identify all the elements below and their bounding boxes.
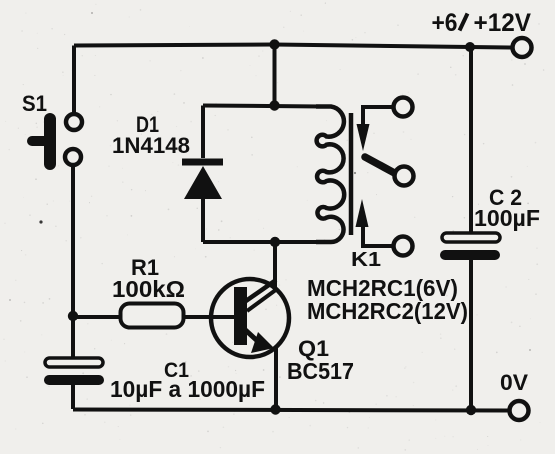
- node junction top-right: [465, 42, 475, 52]
- node junction emitter-rail: [270, 404, 280, 414]
- capacitor C2: [440, 47, 500, 410]
- node junction coil bottom: [270, 237, 280, 247]
- svg-text:BC517: BC517: [287, 358, 354, 384]
- relay K1 core: [349, 113, 354, 235]
- svg-text:1N4148: 1N4148: [112, 133, 190, 158]
- wire bottom rail: [73, 410, 510, 411]
- svg-text:0V: 0V: [500, 370, 528, 395]
- wire top rail: [74, 45, 512, 48]
- wire diode-coil top: [203, 106, 322, 107]
- svg-text:MCH2RC2(12V): MCH2RC2(12V): [307, 298, 468, 324]
- terminal 0V: [510, 401, 529, 420]
- node junction top-center: [269, 39, 279, 49]
- node junction coil top: [269, 100, 279, 110]
- terminal +6/+12V: [513, 38, 532, 57]
- svg-text:+6: +6: [432, 9, 458, 37]
- switch S1: [32, 114, 82, 165]
- svg-text:K1: K1: [351, 249, 381, 271]
- node junction C2-rail: [466, 405, 476, 415]
- diode D1: [182, 106, 223, 243]
- relay K1 coil: [316, 107, 344, 243]
- svg-text:+12V: +12V: [474, 9, 532, 37]
- wire left rail lower: [71, 165, 75, 358]
- wire collector link: [273, 242, 277, 291]
- wire node link top: [273, 45, 277, 106]
- svg-text:100µF: 100µF: [474, 205, 540, 231]
- wire diode-coil bottom: [203, 240, 322, 244]
- svg-text:100kΩ: 100kΩ: [112, 276, 185, 302]
- svg-text:S1: S1: [22, 91, 47, 116]
- svg-text:10µF a 1000µF: 10µF a 1000µF: [110, 376, 265, 402]
- node junction R1 tap: [68, 311, 78, 321]
- wire left rail upper: [72, 46, 76, 115]
- relay K1 contacts: [356, 98, 414, 256]
- resistor R1: [73, 304, 234, 328]
- capacitor C1: [44, 358, 104, 409]
- transistor Q1: [211, 279, 289, 409]
